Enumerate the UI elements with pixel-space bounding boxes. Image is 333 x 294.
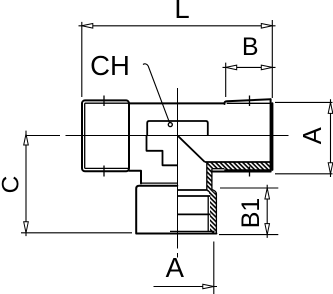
svg-text:A: A xyxy=(166,252,185,283)
svg-text:B1: B1 xyxy=(237,198,265,229)
svg-text:B: B xyxy=(242,33,259,61)
svg-text:C: C xyxy=(0,176,24,194)
svg-text:L: L xyxy=(174,0,189,24)
svg-text:A: A xyxy=(299,127,327,144)
svg-text:CH: CH xyxy=(90,50,130,81)
